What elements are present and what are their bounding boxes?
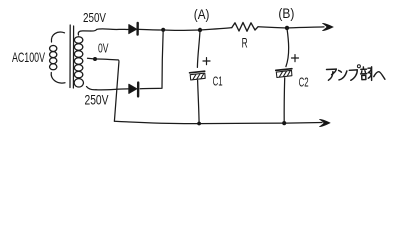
diode D1 [129,25,137,34]
glyph ン [339,70,342,72]
svg-text:C1: C1 [213,74,223,89]
capacitor C2 hatched electrode [276,70,292,77]
resistor R [232,23,258,32]
svg-text:R: R [242,35,248,51]
arrowhead top output [322,23,333,30]
svg-text:(A): (A) [194,7,210,22]
capacitor C2 lead from node B [286,29,289,67]
wire resistor to node B [258,27,287,28]
wire bottom rail [114,121,322,123]
glyph プ [349,69,357,71]
capacitor C1 lead from node A [197,31,200,68]
wire node A to resistor [200,28,232,30]
arrowhead bottom output [319,119,330,126]
wire junction to node A [163,29,200,31]
svg-text:(B): (B) [278,6,294,21]
capacitor C1 bottom lead [198,80,200,123]
transformer secondary winding [78,31,90,35]
svg-text:0V: 0V [98,41,109,55]
wire secondary bottom lead to D2 [96,88,129,91]
wire D1 cathode to junction [139,28,163,31]
glyph 部 [362,67,364,69]
junction dot C1 bottom [197,122,201,126]
wire riser from D2 output up to junction [140,30,163,89]
capacitor C2 top plate [276,69,292,71]
wire node B to top output arrow [287,27,324,28]
junction dot C2 bottom [282,121,286,125]
node B junction dot [285,26,289,30]
transformer core [69,25,71,88]
glyph へ [374,72,385,80]
diode D2 [129,84,137,93]
junction of D1 and D2 outputs [161,28,165,32]
wire center tap to bottom rail [88,58,119,121]
capacitor C1 hatched electrode [190,73,205,80]
wire secondary top lead to D1 [91,29,129,31]
glyph ア [327,68,337,70]
label アンプ部へ (to amplifier section) [327,65,385,81]
svg-text:C2: C2 [299,75,309,90]
capacitor C2 plus sign [292,55,299,62]
capacitor C2 bottom lead [283,78,286,123]
node A junction dot [198,28,202,32]
svg-text:250V: 250V [85,92,109,108]
svg-text:AC100V: AC100V [12,49,45,65]
center tap junction dot [93,57,97,61]
capacitor C1 top plate [190,71,205,73]
transformer primary winding [51,32,64,42]
svg-text:250V: 250V [83,10,106,25]
capacitor C1 plus sign [203,58,210,65]
